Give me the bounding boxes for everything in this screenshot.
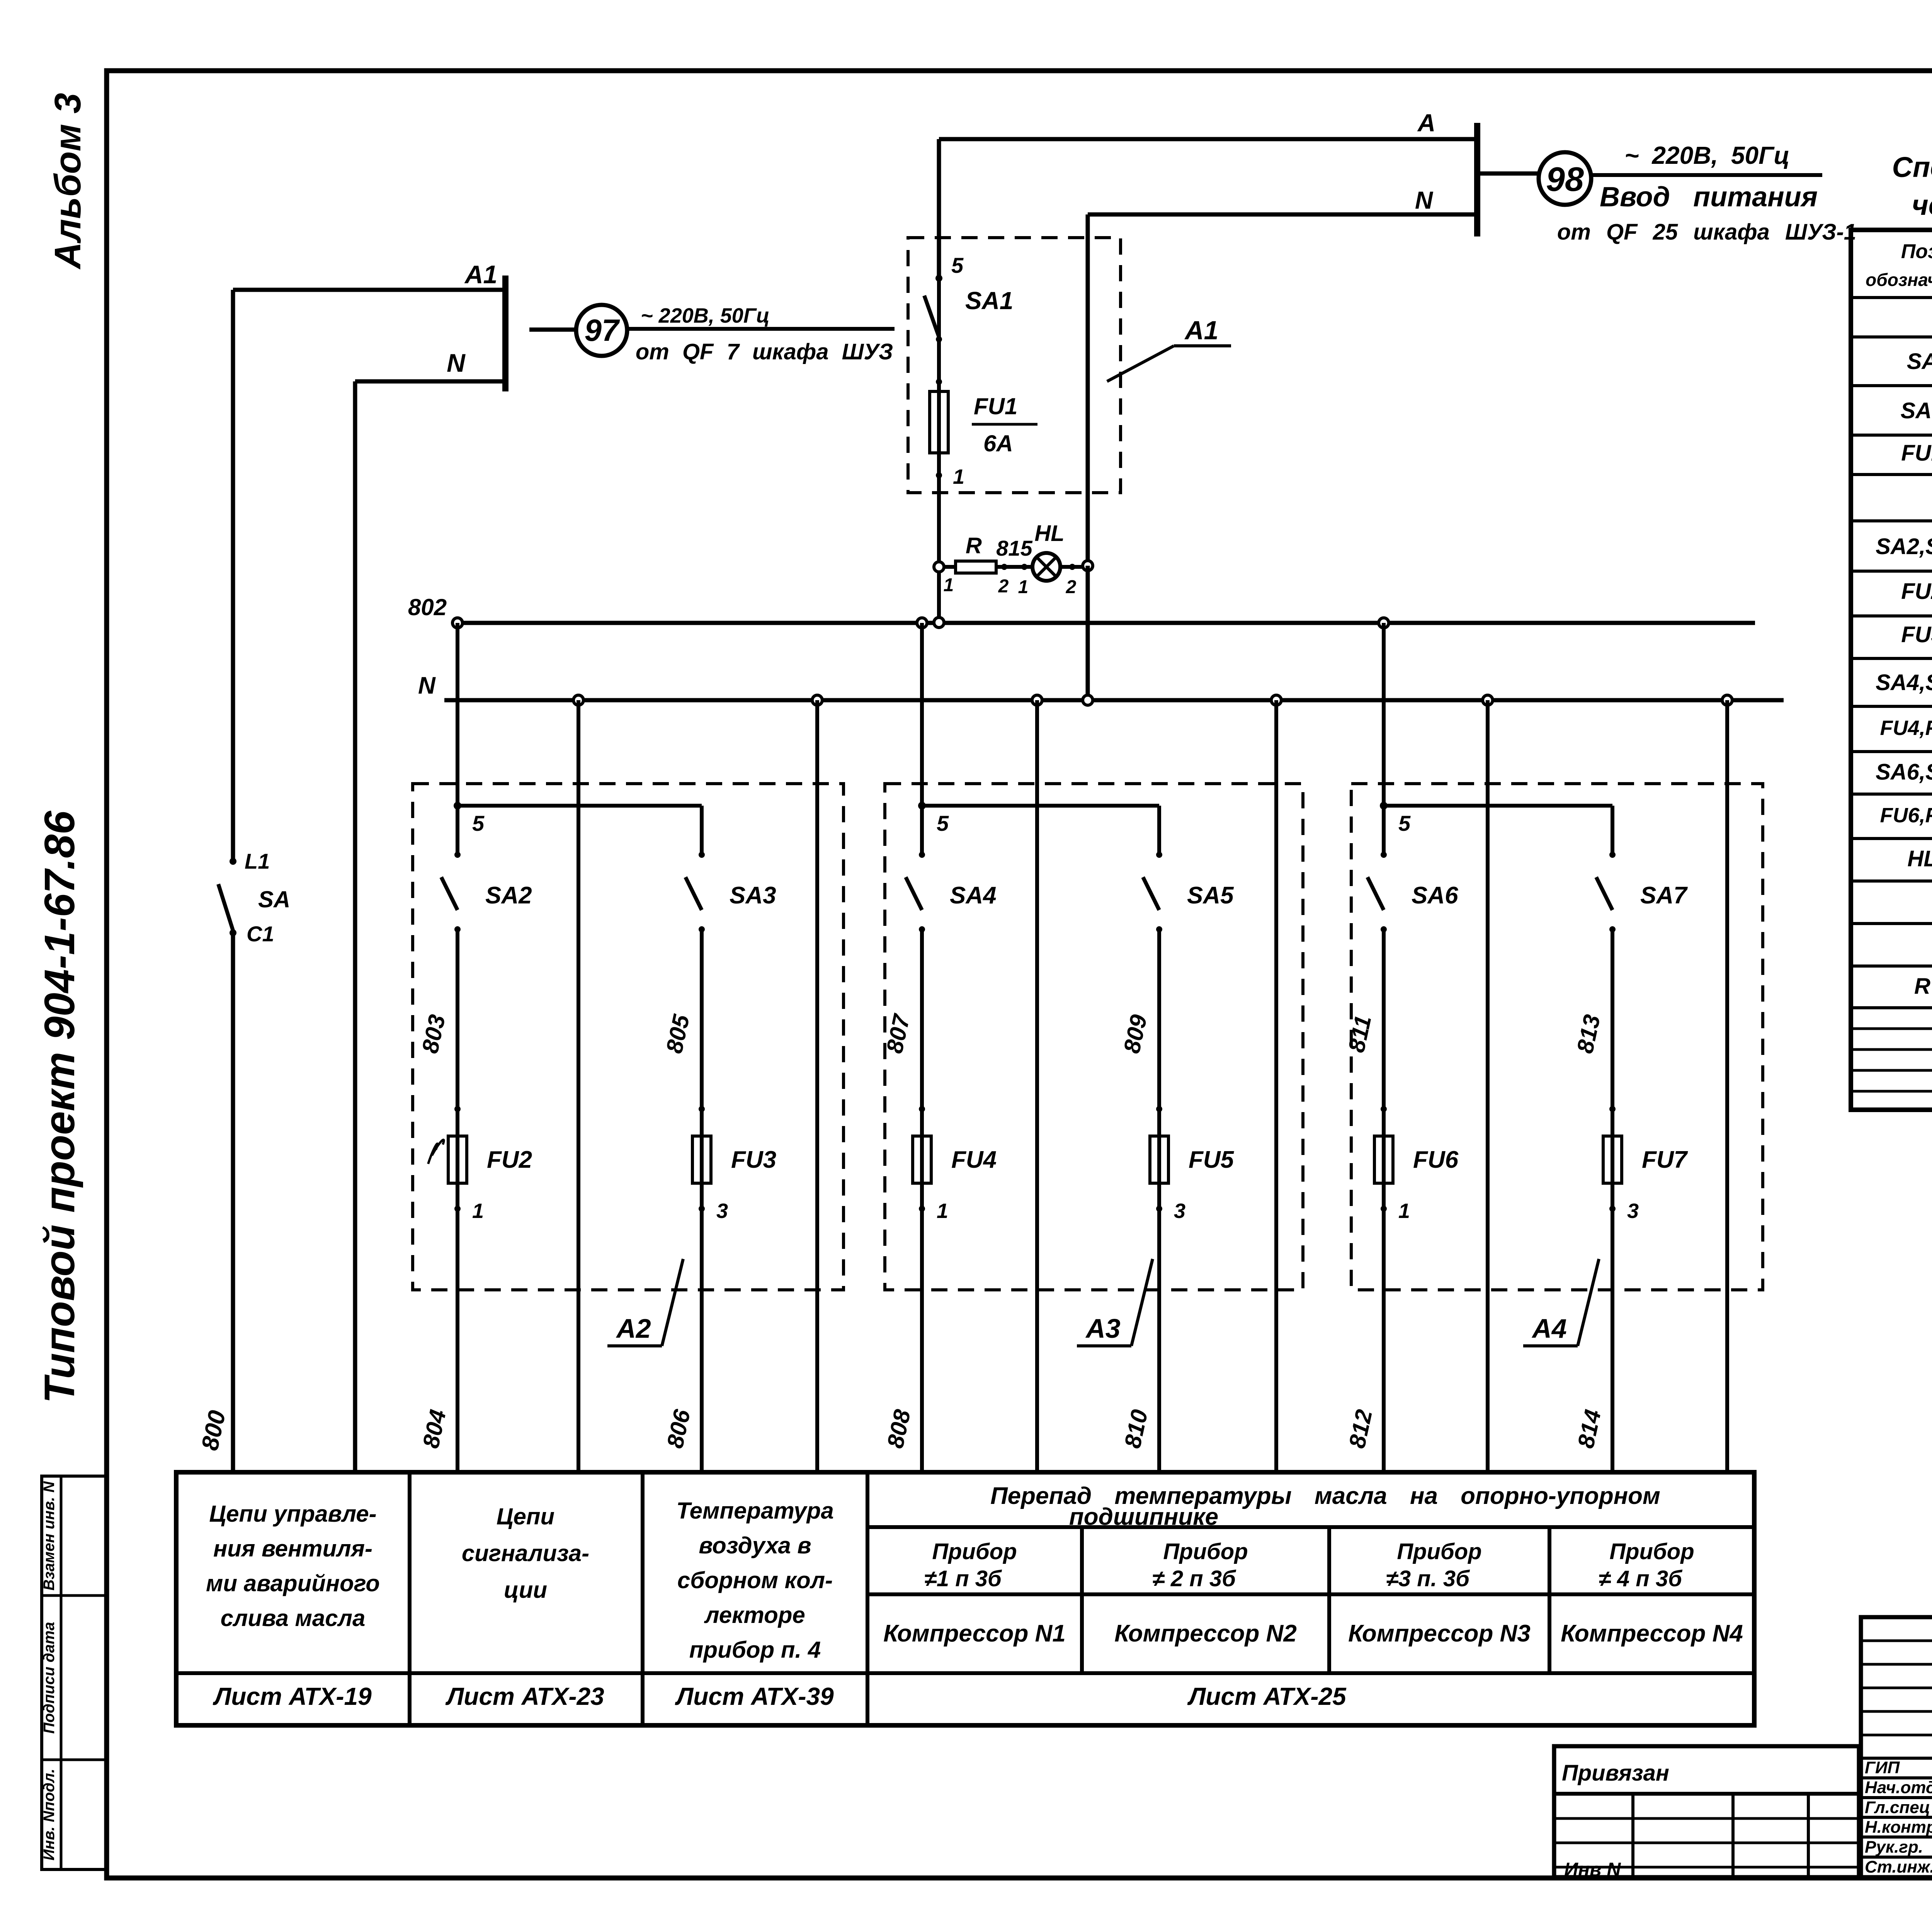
svg-text:слива масла: слива масла bbox=[221, 1605, 366, 1631]
svg-text:Спецификация принципиальной эл: Спецификация принципиальной электри- bbox=[1892, 151, 1932, 183]
svg-text:подшипнике: подшипнике bbox=[1069, 1504, 1218, 1530]
svg-text:сборном кол-: сборном кол- bbox=[677, 1567, 833, 1593]
svg-text:Гл.спец: Гл.спец bbox=[1865, 1798, 1930, 1817]
svg-text:Инв N: Инв N bbox=[1564, 1859, 1621, 1880]
svg-text:А2: А2 bbox=[616, 1313, 651, 1344]
svg-text:SA2,SA3: SA2,SA3 bbox=[1876, 534, 1932, 559]
svg-text:L1: L1 bbox=[245, 849, 270, 873]
svg-text:1: 1 bbox=[953, 465, 964, 488]
svg-text:Н.контр.: Н.контр. bbox=[1865, 1818, 1932, 1837]
svg-text:1: 1 bbox=[944, 575, 954, 595]
svg-text:от QF 25 шкафа ШУЗ-1: от QF 25 шкафа ШУЗ-1 bbox=[1557, 219, 1856, 245]
svg-text:Компрессор N2: Компрессор N2 bbox=[1114, 1620, 1297, 1647]
svg-text:SA1: SA1 bbox=[965, 287, 1014, 315]
svg-text:2: 2 bbox=[998, 576, 1009, 597]
svg-text:N: N bbox=[418, 672, 436, 699]
svg-text:обозначение: обозначение bbox=[1866, 270, 1932, 290]
svg-text:2: 2 bbox=[1066, 577, 1077, 597]
svg-text:FU7: FU7 bbox=[1642, 1146, 1688, 1173]
svg-text:SA3: SA3 bbox=[730, 882, 776, 909]
svg-text:Компрессор N1: Компрессор N1 bbox=[883, 1620, 1066, 1647]
svg-text:Прибор: Прибор bbox=[1397, 1539, 1481, 1564]
svg-text:≠1 п 3б: ≠1 п 3б bbox=[924, 1566, 1002, 1591]
svg-text:FU3: FU3 bbox=[731, 1146, 776, 1173]
svg-text:5: 5 bbox=[951, 253, 964, 277]
svg-text:Прибор: Прибор bbox=[932, 1539, 1017, 1564]
svg-text:ции: ции bbox=[504, 1577, 547, 1603]
svg-text:ния вентиля-: ния вентиля- bbox=[213, 1536, 372, 1561]
svg-text:Компрессор N3: Компрессор N3 bbox=[1348, 1620, 1531, 1647]
svg-text:Ст.инж.: Ст.инж. bbox=[1865, 1857, 1932, 1876]
svg-text:А3: А3 bbox=[1085, 1313, 1121, 1344]
svg-text:сигнализа-: сигнализа- bbox=[462, 1540, 589, 1566]
svg-text:C1: C1 bbox=[247, 922, 274, 946]
svg-text:FU4,FU5: FU4,FU5 bbox=[1880, 716, 1932, 740]
svg-text:≠ 2 п 3б: ≠ 2 п 3б bbox=[1152, 1566, 1236, 1591]
svg-text:Поз.: Поз. bbox=[1901, 240, 1932, 263]
svg-text:≠3 п. 3б: ≠3 п. 3б bbox=[1386, 1566, 1470, 1591]
svg-text:А4: А4 bbox=[1531, 1313, 1566, 1344]
svg-text:от QF 7 шкафа ШУЗ: от QF 7 шкафа ШУЗ bbox=[636, 339, 893, 364]
svg-text:R: R bbox=[1914, 974, 1930, 999]
svg-text:Подписи дата: Подписи дата bbox=[41, 1622, 58, 1733]
svg-text:Типовой проект 904-1-67.86: Типовой проект 904-1-67.86 bbox=[36, 811, 83, 1403]
svg-text:~ 220В, 50Гц: ~ 220В, 50Гц bbox=[1624, 141, 1790, 169]
svg-text:SA: SA bbox=[258, 886, 290, 912]
svg-text:802: 802 bbox=[408, 594, 447, 620]
svg-text:5: 5 bbox=[472, 811, 485, 835]
svg-text:Компрессор N4: Компрессор N4 bbox=[1561, 1620, 1743, 1647]
svg-text:SA2: SA2 bbox=[485, 882, 532, 909]
svg-text:ми аварийного: ми аварийного bbox=[206, 1570, 380, 1596]
svg-text:Цепи управле-: Цепи управле- bbox=[209, 1501, 376, 1527]
svg-text:SA1: SA1 bbox=[1901, 398, 1932, 423]
svg-text:Ввод питания: Ввод питания bbox=[1600, 182, 1818, 213]
svg-text:Цепи: Цепи bbox=[497, 1504, 554, 1529]
svg-text:SA: SA bbox=[1907, 349, 1932, 374]
svg-text:6А: 6А bbox=[983, 430, 1013, 456]
svg-text:Лист АТХ-23: Лист АТХ-23 bbox=[445, 1682, 604, 1710]
svg-text:815: 815 bbox=[996, 536, 1032, 560]
svg-text:FU6: FU6 bbox=[1413, 1146, 1459, 1173]
svg-text:SA4: SA4 bbox=[950, 882, 997, 909]
svg-text:FU1: FU1 bbox=[974, 393, 1017, 419]
svg-text:Инв. Nподл.: Инв. Nподл. bbox=[41, 1769, 58, 1861]
svg-text:Альбом 3: Альбом 3 bbox=[47, 93, 88, 269]
svg-text:97: 97 bbox=[585, 313, 620, 347]
svg-text:Лист АТХ-39: Лист АТХ-39 bbox=[675, 1682, 834, 1710]
svg-text:3: 3 bbox=[1627, 1199, 1639, 1223]
svg-text:А: А bbox=[1417, 109, 1435, 137]
svg-text:А1: А1 bbox=[1184, 316, 1219, 345]
svg-text:SA6,SA7: SA6,SA7 bbox=[1876, 760, 1932, 785]
svg-text:Температура: Температура bbox=[676, 1498, 833, 1524]
svg-text:ГИП: ГИП bbox=[1865, 1758, 1900, 1777]
svg-text:прибор п. 4: прибор п. 4 bbox=[689, 1637, 821, 1663]
svg-text:5: 5 bbox=[937, 811, 949, 835]
svg-text:R: R bbox=[966, 533, 982, 558]
svg-text:SA7: SA7 bbox=[1640, 882, 1688, 909]
svg-text:SA6: SA6 bbox=[1412, 882, 1458, 909]
svg-text:N: N bbox=[447, 349, 466, 377]
svg-text:≠ 4 п 3б: ≠ 4 п 3б bbox=[1599, 1566, 1683, 1591]
svg-text:SA5: SA5 bbox=[1187, 882, 1234, 909]
svg-text:Привязан: Привязан bbox=[1562, 1761, 1669, 1786]
svg-text:~ 220В, 50Гц: ~ 220В, 50Гц bbox=[641, 304, 770, 327]
svg-text:1: 1 bbox=[472, 1199, 484, 1223]
svg-text:Рук.гр.: Рук.гр. bbox=[1865, 1838, 1923, 1857]
svg-text:воздуха в: воздуха в bbox=[699, 1533, 811, 1558]
svg-text:1: 1 bbox=[1398, 1199, 1410, 1223]
svg-text:А1: А1 bbox=[464, 260, 497, 289]
svg-text:FU1: FU1 bbox=[1901, 441, 1932, 466]
svg-text:5: 5 bbox=[1398, 811, 1411, 835]
svg-text:Взамен инв. N: Взамен инв. N bbox=[41, 1481, 58, 1591]
svg-text:FU4: FU4 bbox=[951, 1146, 997, 1173]
svg-text:HL: HL bbox=[1034, 521, 1064, 546]
svg-text:3: 3 bbox=[716, 1199, 728, 1223]
svg-text:Лист АТХ-19: Лист АТХ-19 bbox=[213, 1682, 372, 1710]
svg-text:Лист АТХ-25: Лист АТХ-25 bbox=[1187, 1682, 1347, 1710]
svg-text:FU6,FU7: FU6,FU7 bbox=[1880, 804, 1932, 827]
svg-text:3: 3 bbox=[1174, 1199, 1185, 1223]
svg-text:1: 1 bbox=[937, 1199, 948, 1223]
svg-text:ческой схемы питания: ческой схемы питания bbox=[1912, 189, 1932, 221]
svg-text:Нач.отд.: Нач.отд. bbox=[1865, 1778, 1932, 1797]
svg-text:лекторе: лекторе bbox=[704, 1602, 805, 1628]
svg-text:N: N bbox=[1415, 186, 1434, 214]
svg-text:FU2: FU2 bbox=[487, 1146, 532, 1173]
svg-text:Прибор: Прибор bbox=[1163, 1539, 1248, 1564]
svg-text:HL: HL bbox=[1907, 846, 1932, 871]
svg-text:1: 1 bbox=[1018, 577, 1029, 597]
svg-text:FU3: FU3 bbox=[1901, 622, 1932, 647]
svg-text:Прибор: Прибор bbox=[1609, 1539, 1694, 1564]
svg-text:FU2: FU2 bbox=[1901, 579, 1932, 604]
svg-text:98: 98 bbox=[1546, 160, 1584, 198]
svg-text:SA4,SA5: SA4,SA5 bbox=[1876, 670, 1932, 695]
svg-text:FU5: FU5 bbox=[1189, 1146, 1235, 1173]
